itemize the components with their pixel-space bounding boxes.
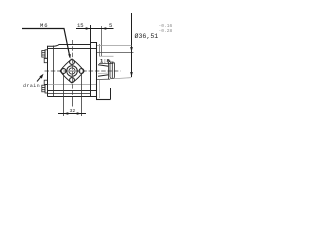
body step at flange [90,96,97,98]
centerline pump axis [45,70,121,72]
port centerline vertical [72,40,74,97]
leader M6 [22,22,71,59]
flange face line [96,42,98,100]
body lower line 2 [48,93,91,95]
flange right edge [110,88,112,100]
dim port hole spacing [58,74,86,117]
body mid lower line [48,84,97,86]
port hole top [70,60,75,65]
port bore inner [69,68,75,74]
shaft nut [109,62,115,80]
spigot bottom edge [97,78,110,80]
port hole right [79,69,84,74]
dim diameter 36,5 [97,13,173,79]
port hole bottom [70,78,75,83]
shaft mid line [98,72,109,75]
svg-text:M6: M6 [40,22,48,29]
port bore outer [67,66,78,77]
svg-text:Ø36,51: Ø36,51 [135,32,159,40]
taper callout frame [99,55,114,57]
rear cover / body joint [53,46,55,97]
svg-text:32: 32 [70,108,76,114]
body lower line [48,90,97,92]
svg-text:drain: drain [23,83,40,89]
port flange diamond [60,59,84,83]
flange inner lines [99,44,101,56]
svg-text:-0.28: -0.28 [159,28,173,34]
flange top edge [90,42,97,44]
shaft taper top [98,65,109,67]
drain label [23,74,44,89]
svg-text:5: 5 [109,22,112,29]
cover bolt bottom [42,80,48,93]
flange left edge [90,25,92,97]
svg-text:15: 15 [77,22,84,29]
shaft taper bottom [98,75,109,77]
rear cover left edge [47,46,49,97]
flange bottom edge [96,99,111,101]
body bottom edge [48,96,91,98]
port hole left [61,69,66,74]
dim 15 and 5 [76,22,114,30]
spigot top edge [97,52,134,54]
body top edge [48,45,91,47]
taper callout 1:8 [100,58,112,64]
body top inner line [48,48,97,50]
cover bolt top [42,50,48,63]
